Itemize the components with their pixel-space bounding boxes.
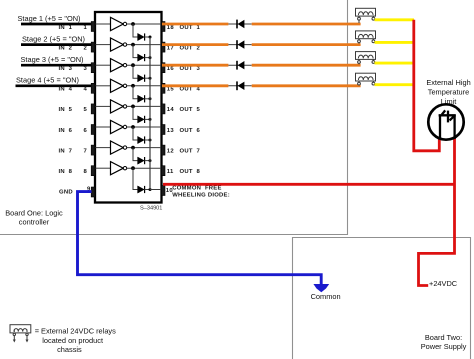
svg-text:IN 3: IN 3 xyxy=(59,66,73,72)
wire output 1 down to clamp diode xyxy=(133,24,138,37)
thermostat contact symbol xyxy=(439,110,456,139)
svg-text:16: 16 xyxy=(167,66,175,72)
wire diode D1 to relay K1 orange segment xyxy=(252,23,361,26)
wire output 6 down to clamp diode xyxy=(133,127,138,140)
buffer amplifier channel 7 xyxy=(111,141,124,154)
wire input pin 5 to buffer 5 xyxy=(96,105,111,107)
legend relay symbol xyxy=(10,325,31,340)
pin IN 1 (pin 1) xyxy=(91,22,95,32)
node rail junction 6 xyxy=(149,139,152,142)
svg-text:Stage 3 (+5 = "ON): Stage 3 (+5 = "ON) xyxy=(21,55,84,64)
wire output 5 down to clamp diode xyxy=(133,106,138,119)
wire relay K3 to +24V bus (yellow) xyxy=(375,62,415,65)
pin GND (pin 9) xyxy=(91,187,95,197)
svg-text:OUT 5: OUT 5 xyxy=(180,107,201,113)
wire buffer 5 output to pin xyxy=(127,105,162,107)
svg-text:IN 1: IN 1 xyxy=(59,25,73,31)
wire relay K2 to +24V bus (yellow) xyxy=(375,41,415,44)
svg-text:7: 7 xyxy=(84,148,88,154)
svg-text:IN 8: IN 8 xyxy=(59,169,73,175)
wire OUT2 orange segment to diode xyxy=(162,43,228,46)
svg-text:14: 14 xyxy=(167,107,175,113)
node rail junction 4 xyxy=(149,97,152,100)
node output 4 junction xyxy=(131,84,135,88)
node rail junction 2 xyxy=(149,56,152,59)
svg-text:Power Supply: Power Supply xyxy=(421,342,467,351)
node rail junction 5 xyxy=(149,118,152,121)
wire OUT3 orange segment to diode xyxy=(162,64,228,67)
svg-text:17: 17 xyxy=(167,45,175,51)
buffer amplifier channel 4 xyxy=(111,79,124,92)
pin OUT 8 (pin 11) xyxy=(161,166,165,176)
node rail junction 3 xyxy=(149,77,152,80)
svg-text:Board One: Logic: Board One: Logic xyxy=(5,209,63,218)
wire diode 2 cathode to common rail xyxy=(145,57,150,59)
svg-text:chassis: chassis xyxy=(57,345,82,354)
node output 7 junction xyxy=(131,146,135,150)
wire relay K1 to +24V bus (yellow) xyxy=(375,18,415,21)
wire through external diode D4 xyxy=(228,85,251,87)
wire GND to common (blue) xyxy=(78,192,322,285)
svg-text:OUT 8: OUT 8 xyxy=(180,169,201,175)
svg-text:OUT 7: OUT 7 xyxy=(180,148,201,154)
pin IN 5 (pin 5) xyxy=(91,104,95,114)
wire stage 3 input xyxy=(21,64,92,67)
buffer amplifier channel 1 xyxy=(111,17,124,30)
node output 6 junction xyxy=(131,125,135,129)
wire temperature switch to +24VDC (red) xyxy=(419,138,455,286)
wire OUT4 orange segment to diode xyxy=(162,84,228,87)
clamp diode channel 2 xyxy=(138,54,145,61)
wire +24V collector bus (red vertical) xyxy=(414,20,440,151)
wire buffer 7 output to pin xyxy=(127,147,162,149)
wire input pin 3 to buffer 3 xyxy=(96,64,111,66)
clamp diode channel 4 xyxy=(138,95,145,102)
svg-text:IN 5: IN 5 xyxy=(59,107,73,113)
wire diode 3 cathode to common rail xyxy=(145,77,150,79)
svg-text:located on product: located on product xyxy=(42,336,103,345)
svg-text:= External 24VDC relays: = External 24VDC relays xyxy=(35,327,116,336)
relay K1 coil xyxy=(356,8,376,23)
svg-text:OUT 1: OUT 1 xyxy=(180,25,201,31)
wire input pin 8 to buffer 8 xyxy=(96,167,111,169)
svg-text:IN 7: IN 7 xyxy=(59,148,73,154)
svg-text:IN 2: IN 2 xyxy=(59,45,73,51)
svg-text:OUT 4: OUT 4 xyxy=(180,87,201,93)
svg-text:COMMON FREE: COMMON FREE xyxy=(172,186,221,192)
wire input pin 1 to buffer 1 xyxy=(96,23,111,25)
temperature switch S1 circle xyxy=(428,104,463,139)
wire rail to pin 10 xyxy=(150,189,162,191)
node output 1 junction xyxy=(131,22,135,26)
svg-text:18: 18 xyxy=(167,25,175,31)
wire through external diode D2 xyxy=(228,44,251,46)
svg-text:IN 6: IN 6 xyxy=(59,128,73,134)
pin IN 2 (pin 2) xyxy=(91,42,95,52)
buffer amplifier channel 5 xyxy=(111,100,124,113)
clamp diode channel 5 xyxy=(138,116,145,123)
pin OUT 7 (pin 12) xyxy=(161,145,165,155)
diode D4 xyxy=(236,81,238,90)
wire input pin 2 to buffer 2 xyxy=(96,44,111,46)
wire diode 7 cathode to common rail xyxy=(145,160,150,162)
wire output 2 down to clamp diode xyxy=(133,45,138,58)
svg-text:3: 3 xyxy=(84,66,88,72)
svg-text:Stage 4 (+5 = "ON): Stage 4 (+5 = "ON) xyxy=(16,76,79,85)
board one outline (logic controller box) xyxy=(0,0,348,235)
svg-text:2: 2 xyxy=(84,45,88,51)
pin OUT 4 (pin 15) xyxy=(161,83,165,93)
relay K2 coil xyxy=(356,31,376,44)
pin 10 COMMON xyxy=(161,186,165,196)
svg-text:GND: GND xyxy=(59,190,73,196)
pin OUT 6 (pin 13) xyxy=(161,125,165,135)
wire stage 4 input xyxy=(16,84,93,87)
node output 3 junction xyxy=(131,63,135,67)
buffer amplifier channel 6 xyxy=(111,120,124,133)
svg-text:OUT 6: OUT 6 xyxy=(180,128,201,134)
diode D1 xyxy=(236,20,238,29)
pin OUT 5 (pin 14) xyxy=(161,104,165,114)
wire buffer 1 output to pin xyxy=(127,23,162,25)
relay K3 coil xyxy=(356,52,376,65)
svg-text:5: 5 xyxy=(84,107,88,113)
board two outline (power supply box) xyxy=(293,238,471,359)
svg-text:+24VDC: +24VDC xyxy=(429,279,458,288)
svg-text:IN 4: IN 4 xyxy=(59,87,73,93)
wire diode D3 to relay K3 orange segment xyxy=(252,64,361,67)
diode D3 xyxy=(236,61,238,70)
arrow common xyxy=(313,284,329,292)
svg-text:Temperature: Temperature xyxy=(428,88,470,97)
node rail junction 1 xyxy=(149,36,152,39)
wire through external diode D1 xyxy=(228,23,251,25)
pin OUT 1 (pin 18) xyxy=(161,22,165,32)
wire input pin 4 to buffer 4 xyxy=(96,85,111,87)
pin IN 4 (pin 4) xyxy=(91,83,95,93)
svg-text:15: 15 xyxy=(167,87,175,93)
wire stage 2 input xyxy=(21,43,92,46)
node output 8 junction xyxy=(131,166,135,170)
clamp diode channel 7 xyxy=(138,157,145,164)
wire buffer 8 output to pin xyxy=(127,167,162,169)
svg-text:S–34901: S–34901 xyxy=(140,206,162,212)
wire buffer 2 output to pin xyxy=(127,44,162,46)
svg-text:11: 11 xyxy=(167,169,174,175)
pin IN 7 (pin 7) xyxy=(91,145,95,155)
svg-text:1: 1 xyxy=(84,25,88,31)
buffer amplifier channel 2 xyxy=(111,38,124,51)
pin IN 3 (pin 3) xyxy=(91,63,95,73)
svg-text:OUT 3: OUT 3 xyxy=(180,66,201,72)
wire output 7 down to clamp diode xyxy=(133,148,138,161)
buffer amplifier channel 8 xyxy=(111,162,124,175)
diode D2 xyxy=(236,40,238,49)
wire output 3 down to clamp diode xyxy=(133,65,138,78)
pin IN 8 (pin 8) xyxy=(91,166,95,176)
wire OUT1 orange segment to diode xyxy=(162,23,228,26)
svg-text:Stage 2 (+5 = "ON): Stage 2 (+5 = "ON) xyxy=(22,34,85,43)
wire diode 6 cathode to common rail xyxy=(145,139,150,141)
svg-text:6: 6 xyxy=(84,128,88,134)
wire output 8 down to clamp diode xyxy=(133,168,138,189)
pin IN 6 (pin 6) xyxy=(91,125,95,135)
svg-text:WHEELING DIODE:: WHEELING DIODE: xyxy=(172,192,230,198)
clamp diode channel 6 xyxy=(138,136,145,143)
wire buffer 6 output to pin xyxy=(127,126,162,128)
wire buffer 4 output to pin xyxy=(127,85,162,87)
wire stage 1 input xyxy=(21,23,92,26)
node output 2 junction xyxy=(131,43,135,47)
svg-text:External High: External High xyxy=(426,78,470,87)
wire diode 4 cathode to common rail xyxy=(145,98,150,100)
wire freewheel pin10 to 24V line (red) xyxy=(163,183,455,186)
wire relay K4 to +24V bus (yellow) xyxy=(375,83,415,86)
node output 5 junction xyxy=(131,105,135,109)
svg-text:OUT 2: OUT 2 xyxy=(180,45,201,51)
svg-text:Common: Common xyxy=(311,292,341,301)
clamp diode channel 3 xyxy=(138,75,145,82)
svg-text:Board Two:: Board Two: xyxy=(425,333,462,342)
wire through external diode D3 xyxy=(228,64,251,66)
wire diode D4 to relay K4 orange segment xyxy=(252,84,361,87)
wire buffer 3 output to pin xyxy=(127,64,162,66)
svg-text:13: 13 xyxy=(167,128,175,134)
relay K4 coil xyxy=(356,73,376,85)
svg-text:8: 8 xyxy=(84,169,88,175)
wire output 4 down to clamp diode xyxy=(133,86,138,99)
clamp diode channel 1 xyxy=(138,33,145,40)
wire diode 1 cathode to common rail xyxy=(145,36,150,38)
common freewheeling diode rail xyxy=(149,37,151,190)
wire diode 5 cathode to common rail xyxy=(145,118,150,120)
wire diode D2 to relay K2 orange segment xyxy=(252,43,361,46)
node rail junction 7 xyxy=(149,159,152,162)
svg-text:12: 12 xyxy=(167,148,175,154)
node rail junction 8 xyxy=(149,188,152,191)
wire input pin 6 to buffer 6 xyxy=(96,126,111,128)
clamp diode channel 8 xyxy=(138,186,145,193)
wire input pin 7 to buffer 7 xyxy=(96,147,111,149)
op-amp driver IC U1 (S-34901 octal driver) body xyxy=(95,12,162,203)
buffer amplifier channel 3 xyxy=(111,59,124,72)
svg-text:Stage 1 (+5 = "ON): Stage 1 (+5 = "ON) xyxy=(18,14,81,23)
pin OUT 3 (pin 16) xyxy=(161,63,165,73)
svg-text:4: 4 xyxy=(84,87,88,93)
wire diode 8 cathode to common rail xyxy=(145,189,150,191)
svg-text:controller: controller xyxy=(19,218,50,227)
pin OUT 2 (pin 17) xyxy=(161,42,165,52)
